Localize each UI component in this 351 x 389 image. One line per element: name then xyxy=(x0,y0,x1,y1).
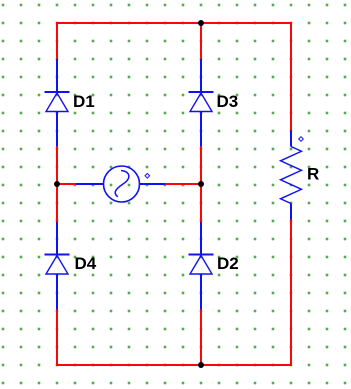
wire top rail red: left corner, top, right corner xyxy=(57,23,291,131)
svg-text:D4: D4 xyxy=(75,254,97,273)
svg-text:R: R xyxy=(307,165,319,184)
wire left mid red horizontal stub xyxy=(57,183,76,185)
svg-text:D1: D1 xyxy=(73,92,95,111)
junction node top xyxy=(198,20,204,26)
svg-text:D2: D2 xyxy=(217,254,239,273)
wire left mid red vertical xyxy=(56,146,58,222)
wire right mid red vertical xyxy=(200,146,202,222)
AC source origin marker diamond xyxy=(145,174,150,179)
wire mid red horizontal stub to junction xyxy=(165,183,201,185)
junction node right mid xyxy=(198,181,204,187)
diode D4 xyxy=(45,222,70,310)
diode D1 xyxy=(45,59,70,146)
wire bottom D2 branch red xyxy=(200,310,202,366)
svg-text:D3: D3 xyxy=(217,92,239,111)
resistor R xyxy=(281,131,302,220)
diode D2 xyxy=(189,222,214,310)
wire top D3 branch red xyxy=(200,23,202,59)
AC source V1 xyxy=(76,166,165,202)
wire bottom rail red xyxy=(57,220,291,366)
diode D3 xyxy=(189,59,214,146)
resistor origin marker diamond xyxy=(299,137,304,142)
junction node bottom xyxy=(198,362,204,368)
junction node left mid xyxy=(54,181,60,187)
